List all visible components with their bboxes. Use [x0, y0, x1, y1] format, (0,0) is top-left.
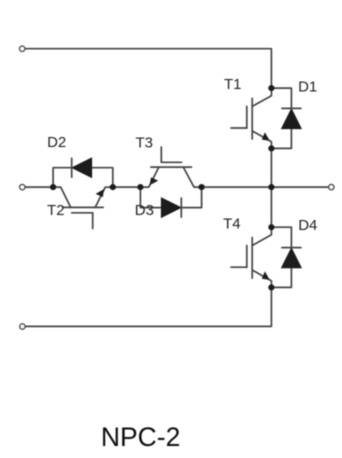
svg-text:T1: T1 [224, 76, 242, 93]
terminal output right [329, 185, 334, 190]
svg-text:T2: T2 [47, 202, 65, 219]
svg-text:T3: T3 [135, 134, 153, 151]
transistor T1 [231, 88, 271, 148]
wire phase leg between T1 and T4 [270, 148, 272, 227]
transistor T2 emitter arrow [96, 189, 105, 197]
node left switch left [50, 184, 56, 190]
node T1 collector [268, 85, 274, 91]
node right switch right [199, 184, 205, 190]
terminal neutral left [20, 185, 25, 190]
node junction dots [50, 85, 275, 291]
wire D2 branch [53, 168, 72, 187]
wire D1 branch [271, 88, 291, 108]
svg-text:NPC-2: NPC-2 [101, 422, 181, 452]
node T4 emitter [268, 284, 274, 290]
node T4 collector [268, 224, 274, 230]
node T1 emitter [268, 145, 274, 151]
wire top rail [25, 49, 272, 88]
node right switch left [137, 184, 143, 190]
transistor T3 emitter arrow [150, 177, 159, 185]
node midpoint [268, 184, 274, 190]
wire bottom rail [25, 287, 272, 326]
diode D3 [161, 198, 181, 217]
wire between bidirectional switch halves [113, 186, 141, 188]
transistor T3 [140, 147, 201, 187]
wire mid-left lead [25, 186, 53, 188]
transistor T4 emitter arrow [262, 271, 270, 280]
transistor T2 [53, 187, 113, 228]
terminal DC- [20, 324, 25, 329]
svg-text:D2: D2 [47, 134, 66, 151]
terminal DC+ [20, 46, 25, 51]
wire D4 branch [271, 227, 291, 247]
diode D4 [282, 248, 302, 268]
svg-text:D3: D3 [135, 202, 154, 219]
svg-text:T4: T4 [223, 215, 241, 232]
svg-text:D1: D1 [298, 79, 317, 96]
transistor T4 [231, 227, 271, 287]
transistor T1 emitter arrow [262, 132, 270, 141]
wire D3 branch [140, 187, 161, 208]
node left switch right [110, 184, 116, 190]
svg-text:D4: D4 [298, 217, 317, 234]
diode D2 [72, 158, 92, 177]
diode D1 [282, 108, 302, 128]
wire mid rail to output terminal [202, 186, 329, 188]
